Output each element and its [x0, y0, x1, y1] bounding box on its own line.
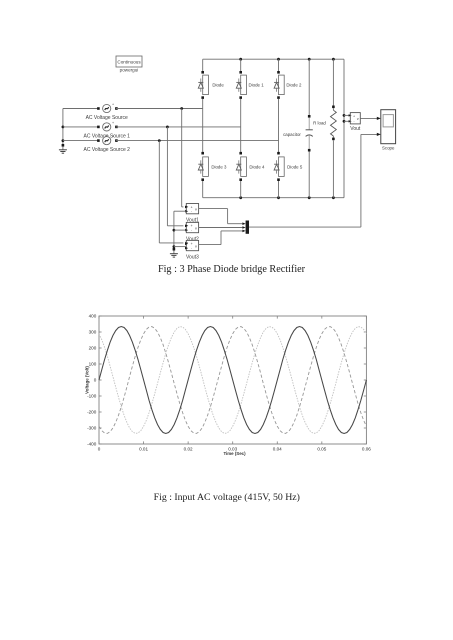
svg-text:0.05: 0.05 [317, 447, 326, 452]
svg-text:Diode 2: Diode 2 [286, 83, 302, 88]
svg-text:Fig : Input AC voltage (415V: Fig : Input AC voltage (415V, 50 Hz) [154, 492, 300, 503]
diode Diode 5 (D bottom 3) [274, 157, 303, 177]
svg-text:Diode 3: Diode 3 [211, 164, 227, 169]
wire Vout to Scope [360, 117, 381, 120]
wire Vout2 to mux [199, 226, 246, 229]
bottom bus wire [203, 196, 344, 199]
svg-text:0: 0 [94, 378, 97, 383]
svg-text:-400: -400 [87, 442, 97, 447]
voltmeter Vout [350, 113, 361, 132]
svg-text:AC Voltage Source 2: AC Voltage Source 2 [83, 147, 130, 153]
svg-text:Voltage (Volt): Voltage (Volt) [85, 366, 90, 394]
svg-text:0.01: 0.01 [139, 447, 148, 452]
svg-text:+: + [112, 121, 114, 125]
wire leg2 mid [239, 96, 242, 154]
svg-text:0.02: 0.02 [184, 447, 193, 452]
left bus wire [62, 109, 65, 145]
wire tap phase A [182, 109, 189, 209]
svg-text:Scope: Scope [382, 145, 395, 150]
wire R load bottom [332, 136, 335, 198]
svg-text:-200: -200 [87, 410, 97, 415]
svg-text:Diode: Diode [212, 83, 224, 88]
wire Vout3 to mux [199, 230, 246, 245]
svg-text:-: - [353, 120, 354, 124]
svg-text:+: + [353, 114, 355, 118]
wire leg3 lower [277, 178, 280, 197]
svg-text:v: v [357, 117, 359, 121]
wire leg3 mid [277, 96, 280, 154]
AC Voltage Source 1 [83, 121, 130, 139]
wire row2 left [63, 126, 99, 128]
resistor R load [313, 110, 336, 136]
AC Voltage Source 2 [83, 135, 130, 153]
wire leg1 lower [201, 178, 204, 197]
mux block [246, 221, 249, 234]
y axis labels [87, 314, 97, 447]
top bus wire [203, 58, 344, 61]
voltmeter Vout2 [185, 222, 199, 242]
wire leg1 upper [201, 59, 204, 73]
svg-text:-: - [191, 210, 192, 214]
wire tap phase B [167, 127, 188, 227]
wire row3 left [63, 140, 99, 142]
svg-text:Fig : 3 Phase Diode bridge Re: Fig : 3 Phase Diode bridge Rectifier [158, 264, 306, 275]
x axis labels [98, 447, 372, 452]
wire capacitor bottom [308, 149, 311, 198]
svg-text:0.06: 0.06 [362, 447, 371, 452]
svg-text:400: 400 [89, 314, 97, 319]
wire row3 right [116, 139, 279, 142]
svg-text:powergui: powergui [120, 68, 139, 73]
svg-text:+: + [112, 135, 114, 139]
svg-text:AC Voltage Source: AC Voltage Source [86, 115, 128, 121]
wire row2 right [116, 126, 241, 129]
sine wave phase A (solid) [99, 327, 366, 434]
powergui block [116, 56, 142, 73]
svg-text:Time (Sec): Time (Sec) [223, 451, 246, 456]
diode Diode 4 (D bottom 2) [236, 157, 265, 177]
voltmeter Vout1 [185, 204, 199, 224]
wire row1 right [116, 107, 203, 110]
svg-text:Diode 4: Diode 4 [249, 164, 265, 169]
diode Diode (D top 1) [198, 75, 224, 95]
wire leg2 lower [239, 178, 242, 197]
caption figure 2 [154, 492, 300, 503]
x axis title [223, 451, 246, 456]
AC Voltage Source V1 [86, 103, 128, 121]
ground G2 [170, 248, 178, 257]
svg-text:Continuous: Continuous [117, 60, 141, 65]
diode Diode 3 (D bottom 1) [198, 157, 227, 177]
svg-text:-: - [191, 246, 192, 250]
svg-text:100: 100 [89, 362, 97, 367]
sine wave phase B (dashed) [99, 327, 366, 434]
ground G1 [59, 144, 67, 153]
svg-text:Vout: Vout [350, 126, 361, 132]
diode Diode 1 (D top 2) [236, 75, 264, 95]
svg-text:+: + [112, 103, 114, 107]
svg-text:300: 300 [89, 330, 97, 335]
sine wave phase C (light) [99, 327, 366, 434]
svg-text:v: v [195, 226, 197, 230]
wire row1 left [63, 108, 99, 110]
svg-text:-300: -300 [87, 426, 97, 431]
svg-text:capacitor: capacitor [283, 132, 301, 137]
svg-text:R load: R load [313, 120, 326, 125]
minus bus wire [173, 211, 187, 248]
wire tap phase C [159, 141, 188, 245]
capacitor C1 [283, 118, 313, 149]
svg-text:Vout3: Vout3 [186, 254, 199, 260]
wire mux to scope [249, 133, 381, 227]
svg-text:0: 0 [98, 447, 101, 452]
right rail wire [343, 59, 345, 198]
wire Vout minus stub [343, 120, 352, 123]
wire capacitor top [308, 59, 311, 117]
svg-text:v: v [195, 207, 197, 211]
svg-text:Diode 1: Diode 1 [249, 83, 265, 88]
diode Diode 2 (D top 3) [274, 75, 302, 95]
wire leg2 upper [239, 59, 242, 73]
wire leg3 upper [277, 59, 280, 73]
caption figure 1 [158, 264, 306, 275]
svg-text:0.04: 0.04 [273, 447, 282, 452]
svg-text:v: v [195, 244, 197, 248]
voltmeter Vout3 [185, 240, 199, 260]
wire R load top [332, 59, 335, 110]
wire Vout plus stub [343, 114, 352, 117]
svg-text:-: - [191, 228, 192, 232]
wire Vout1 to mux [199, 209, 246, 225]
scope block [381, 110, 396, 151]
svg-text:200: 200 [89, 346, 97, 351]
svg-text:Diode 5: Diode 5 [287, 164, 303, 169]
y axis title [85, 366, 90, 394]
plot axes box [99, 316, 366, 444]
wire leg1 mid [201, 96, 204, 154]
